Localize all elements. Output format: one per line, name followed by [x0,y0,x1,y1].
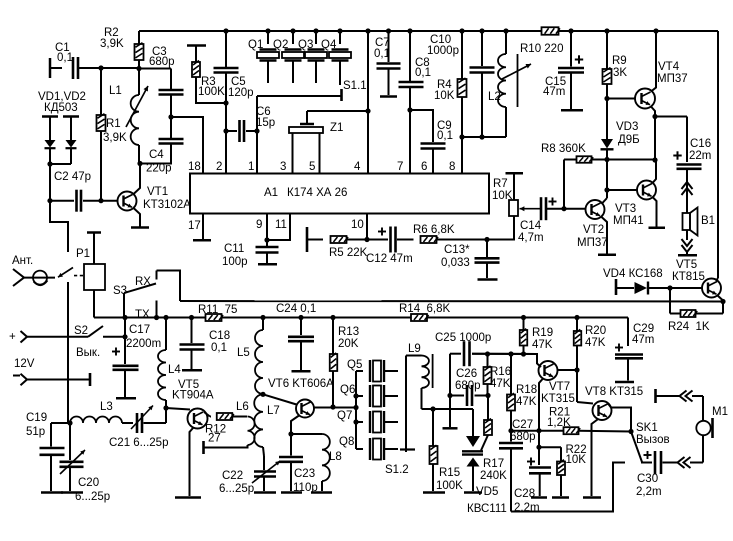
connector chevrons mic bottom [678,457,685,468]
wire varicap rail [422,408,474,410]
transistor VT6 [263,394,297,404]
svg-text:R11 75: R11 75 [198,304,237,316]
svg-text:47m: 47m [543,86,565,98]
svg-text:10K: 10K [434,90,455,102]
transistor VT7 [537,364,541,368]
resistor R9 [604,28,609,33]
node R9-VT4 base [604,96,609,101]
svg-text:3,9K: 3,9K [103,132,127,144]
capacitor C21 variable [137,413,142,433]
svg-text:22m: 22m [689,150,711,162]
svg-text:Q4: Q4 [321,39,337,51]
resistor R16 [487,354,489,367]
svg-text:К174 ХА 26: К174 ХА 26 [287,187,347,199]
node VD4-R24 [667,285,672,290]
wire audio rail [472,354,537,364]
svg-text:C17: C17 [129,324,150,336]
resistor R22 [557,460,565,475]
capacitor C6 [226,130,237,132]
svg-text:4: 4 [354,161,361,173]
svg-text:R20: R20 [585,325,606,337]
capacitor C20 variable [69,423,71,460]
node R4-C10-L2-pin8 [459,134,464,139]
svg-text:1: 1 [248,161,254,173]
transistor VT1 [101,200,118,202]
transistor VT3 [607,189,637,191]
svg-text:6...25p: 6...25p [75,491,110,503]
svg-text:3: 3 [280,161,286,173]
capacitor C24 [300,318,302,336]
svg-text:2,2m: 2,2m [636,486,662,498]
wire VT2 collector [606,190,608,198]
svg-text:C26: C26 [456,368,477,380]
node VD junction [47,161,52,166]
transistor VT5 KT904A [166,408,190,410]
node TX-L4 [163,315,168,320]
relay S3 box [87,231,101,234]
svg-text:680p: 680p [455,380,481,392]
svg-text:47m: 47m [632,334,654,346]
svg-text:S1.1: S1.1 [343,80,367,92]
contact TX [156,301,158,318]
crystal Q8 [356,448,363,450]
svg-text:11: 11 [275,219,287,231]
wire VT4e to C16 [655,116,687,118]
svg-text:10: 10 [351,219,364,231]
svg-text:18: 18 [188,161,201,173]
resistor R6 [421,236,439,243]
node RX right end [720,299,725,304]
svg-text:0,1: 0,1 [374,48,390,60]
inductor L2 [503,28,508,33]
svg-text:47K: 47K [516,396,537,408]
svg-text:VT1: VT1 [147,186,168,198]
node Q-rail Q6 [353,393,358,398]
node L4-C21-VT5 base [163,405,168,410]
node Q-rail Q7 [353,419,358,424]
svg-text:C13*: C13* [444,244,470,256]
svg-text:6: 6 [421,161,427,173]
svg-text:C19: C19 [26,412,47,424]
node TX-C24 [298,315,303,320]
inductor L4 [165,318,167,351]
capacitor C22 variable [254,472,276,477]
capacitor C9 [410,110,433,142]
wire pin4 [367,31,369,174]
node C5-C6 [223,128,228,133]
capacitor C30 [641,462,652,464]
svg-text:VT3: VT3 [615,203,636,215]
node TX-C18 [189,315,194,320]
capacitor C11 [266,240,268,246]
pin 10 wire [366,214,368,240]
svg-text:C28: C28 [514,488,535,500]
node TX-R19 [521,315,526,320]
node pin10-R5-C12 [364,237,369,242]
svg-text:МП37: МП37 [657,73,688,85]
capacitor C23 [290,434,292,456]
svg-text:VD5: VD5 [476,486,498,498]
resistor R11 [206,314,224,321]
svg-text:680p: 680p [149,56,175,68]
svg-text:R8 360K: R8 360K [541,143,586,155]
svg-text:47K: 47K [532,339,553,351]
svg-text:Z1: Z1 [330,122,343,134]
svg-text:R13: R13 [338,326,359,338]
relay contact P1 arm [58,268,73,278]
crystal Q4 [337,28,342,33]
svg-text:VT6 KT606A: VT6 KT606A [268,378,334,390]
svg-text:Вык.: Вык. [76,347,100,359]
crystal Q1 [265,28,270,33]
diode VD3 [606,99,608,140]
capacitor C1 [49,58,52,78]
svg-text:C11: C11 [224,243,244,255]
svg-text:120p: 120p [228,87,254,99]
node R1-VT1 base [98,198,103,203]
trimmer arrow L2 [502,64,531,79]
svg-text:Q7: Q7 [337,410,352,422]
diode VD4 [615,279,618,295]
svg-text:C30: C30 [637,473,658,485]
wire Z1 to pin4 [307,110,368,112]
capacitor C14 [541,197,546,220]
svg-text:17: 17 [188,220,201,232]
svg-text:C24 0,1: C24 0,1 [276,303,316,315]
node R8-VT3C [652,157,657,162]
svg-text:VT8 KT315: VT8 KT315 [585,386,643,398]
svg-text:S1.2: S1.2 [385,464,409,476]
svg-text:VT4: VT4 [658,61,680,73]
svg-text:0,1: 0,1 [415,67,431,79]
wire TX bus [94,317,628,319]
inductor L8 [291,433,322,435]
node bus C5 [223,28,228,33]
terminal bar C26 gnd [443,427,458,430]
resistor R10 [542,27,560,35]
wire TX bus to C29 [627,318,629,347]
wire VD to C2 node [49,164,51,201]
svg-text:L6: L6 [236,401,249,413]
svg-text:M1: M1 [712,406,728,418]
svg-text:680p: 680p [510,431,536,443]
wire common left vertical lower [67,282,69,423]
transistor VT5 KT815 [670,287,702,289]
svg-text:3,9K: 3,9K [100,38,124,50]
wire VT2 base [547,208,586,210]
svg-text:C14: C14 [520,220,542,232]
resistor R12 [210,416,211,418]
node R6-C13-R7 [484,237,489,242]
svg-text:51p: 51p [26,426,45,438]
node pin4-Z1 [365,108,370,113]
svg-text:Q8: Q8 [339,436,354,448]
node C4-L1-VT1 [137,161,142,166]
svg-text:2200m: 2200m [126,338,161,350]
wire L2 tank bottom [462,136,506,138]
svg-text:9: 9 [256,219,262,231]
svg-text:R10 220: R10 220 [520,43,563,55]
capacitor C12 [367,239,388,241]
svg-text:R6 6,8K: R6 6,8K [413,224,455,236]
svg-text:C22: C22 [222,470,243,482]
resistor R13 [332,318,334,355]
connector chevrons up [682,182,693,189]
svg-text:R15: R15 [439,467,460,479]
svg-text:L5: L5 [237,347,250,359]
resistor R8 [564,159,577,161]
connector chevrons mic top [680,391,687,402]
svg-text:C16: C16 [690,138,711,150]
crystal Q5 [356,370,363,372]
resistor R21 [564,427,581,434]
wire C3 node to pin18 [171,117,203,174]
svg-text:47K: 47K [490,378,511,390]
capacitor C27 [510,431,512,442]
svg-text:VD3: VD3 [616,121,638,133]
svg-text:1000p: 1000p [427,45,459,57]
node VT2 base [561,206,566,211]
wire RX supply line [180,300,723,303]
capacitor C26 [450,395,464,397]
inductor L5 [262,318,264,331]
node Q-rail in [353,405,358,410]
svg-text:R24 1K: R24 1K [668,321,710,333]
svg-text:Д9Б: Д9Б [618,134,640,146]
wire C28-R22 link [539,446,561,448]
transistor VT8 [576,370,578,402]
potentiometer R7 [506,172,524,175]
resistor R24 [669,288,671,314]
transistor VT4 [607,98,636,100]
capacitor C13 [486,240,488,258]
capacitor C25 [450,353,461,355]
svg-text:TX: TX [135,309,150,321]
svg-text:Q5: Q5 [347,359,362,371]
svg-text:0,1: 0,1 [437,130,453,142]
svg-text:10K: 10K [492,190,513,202]
svg-text:C12 47m: C12 47m [366,253,413,265]
node L5-L7-VT6 [260,392,265,397]
resistor R1 [100,69,102,116]
svg-text:15p: 15p [256,117,275,129]
crystal Q7 [356,421,363,423]
svg-text:2,2m: 2,2m [514,502,540,514]
svg-text:5: 5 [309,161,315,173]
svg-text:R18: R18 [516,384,537,396]
svg-text:R5 22K: R5 22K [329,247,368,259]
svg-text:100p: 100p [222,256,248,268]
node rail R18 [508,351,513,356]
svg-text:МП37: МП37 [577,237,608,249]
diode VD2 [63,115,79,118]
svg-text:R17: R17 [483,458,504,470]
contact RX [156,271,158,280]
trimmer arrow L1 [126,86,148,127]
switch S1.2 [405,356,407,453]
svg-text:L4: L4 [168,364,181,376]
node TX-R13 [330,315,335,320]
capacitor C19 [51,422,70,424]
crystal Z1 [289,127,323,133]
node VT6 emitter [288,431,293,436]
svg-text:RX: RX [135,276,151,288]
svg-text:C20: C20 [78,477,99,489]
svg-text:S2: S2 [74,325,88,337]
resistor R5 [306,227,309,252]
crystal Q6 [356,395,363,397]
svg-text:220p: 220p [146,163,172,175]
capacitor C8 [407,28,412,33]
capacitor C16 [673,151,681,159]
svg-text:0,1: 0,1 [211,342,227,354]
node left common - L3 [67,420,72,425]
svg-text:SK1: SK1 [636,422,658,434]
inductor L3 [70,417,122,423]
svg-text:КТ815: КТ815 [672,271,705,283]
resistor R14 [411,314,429,321]
node pin9-11 [264,237,269,242]
switch S3.1 pole [122,315,127,320]
wire R21 line [511,430,564,432]
wire R8 left drop [563,160,565,209]
pin 9 wire [266,214,268,241]
battery minus terminal [13,375,20,377]
diode VD1 [42,115,58,118]
node VT7e-R21 [536,428,541,433]
node rail R16 [485,351,490,356]
node C1-R2 [136,66,141,71]
IC A1 box [190,174,489,214]
svg-text:C25 1000p: C25 1000p [435,332,491,344]
svg-text:Q3: Q3 [298,39,313,51]
node C3-C4 [168,114,173,119]
capacitor C5 [225,31,227,67]
resistor R2 [138,31,140,44]
svg-text:12V: 12V [14,358,35,370]
polarity C17 plus [112,348,120,356]
node C1-R1 [98,65,103,70]
capacitor C28 [538,447,540,465]
svg-text:3K: 3K [613,67,627,79]
svg-text:C4: C4 [149,149,164,161]
varicap VD5 [472,409,474,436]
svg-text:МП41: МП41 [613,215,644,227]
node R18-C27-R21 [508,428,513,433]
svg-text:240K: 240K [480,470,507,482]
svg-text:47K: 47K [585,337,606,349]
svg-text:VT5: VT5 [676,259,697,271]
svg-text:C18: C18 [209,330,230,342]
svg-text:1,2K: 1,2K [547,417,571,429]
resistor R15 [432,409,434,446]
inductor L6 [248,417,255,446]
svg-text:27: 27 [208,433,221,445]
node C26 left [447,393,452,398]
capacitor C2 [50,200,74,202]
svg-text:10K: 10K [566,454,587,466]
svg-text:R7: R7 [493,178,508,190]
wire bottom return [511,463,625,512]
svg-text:Q2: Q2 [273,39,288,51]
inductor L1 [138,69,140,96]
node R3-C5 [223,100,228,105]
wire VT4e down [654,117,656,161]
svg-text:8: 8 [449,161,455,173]
node VT4 emitter [652,114,657,119]
svg-text:6...25p: 6...25p [219,483,254,495]
svg-text:100K: 100K [198,86,225,98]
node TX-R20 [574,315,579,320]
svg-text:7: 7 [397,161,403,173]
svg-text:C2 47p: C2 47p [54,171,91,183]
wire Q-rail [333,407,356,409]
svg-text:P1: P1 [76,248,90,260]
capacitor C10 [479,28,484,33]
wire VD bottoms [50,163,71,165]
svg-text:KT315: KT315 [541,393,575,405]
svg-text:4,7m: 4,7m [518,232,544,244]
pin 17 stub [202,214,204,240]
node VT7e-C28 [536,445,541,450]
svg-text:Ант.: Ант. [12,255,33,267]
svg-text:B1: B1 [701,215,715,227]
terminal bar B1 bottom [678,254,697,257]
svg-text:C21 6...25p: C21 6...25p [109,437,168,449]
node VD3-VT3 base [604,187,609,192]
capacitor C17 [124,318,126,337]
svg-text:0,1: 0,1 [57,52,73,64]
svg-text:A1: A1 [264,187,278,199]
svg-text:R14 6,8K: R14 6,8K [399,303,450,315]
svg-text:C27: C27 [512,419,533,431]
svg-text:VT7: VT7 [549,381,570,393]
resistor R4 [459,28,464,33]
node SK1 [628,429,633,434]
mech link P1 dashes [74,275,84,277]
svg-text:VD4 КС168: VD4 КС168 [603,268,663,280]
svg-text:KT904A: KT904A [172,390,214,402]
svg-text:L7: L7 [267,405,280,417]
node R8-VD3 [604,157,609,162]
capacitor C18 [191,318,193,344]
node R13-VT6 collector [330,404,335,409]
wiper arrow R7 [520,208,541,210]
capacitor C29 [615,344,623,352]
svg-text:KT3102A: KT3102A [143,199,191,211]
resistor R17 [487,396,489,421]
switch S2 [88,326,103,337]
svg-text:L8: L8 [329,451,342,463]
capacitor C4 [170,117,172,138]
polarity C12 plus [378,228,386,236]
svg-text:КД503: КД503 [44,102,78,114]
wire top supply bus [139,30,542,32]
svg-text:R16: R16 [490,366,511,378]
svg-text:VT2: VT2 [583,224,604,236]
svg-text:R19: R19 [532,327,553,339]
capacitor C15 [568,28,573,33]
svg-text:Q6: Q6 [340,384,355,396]
wire common left vertical upper [50,201,68,252]
capacitor C3 [139,68,171,70]
node TX-L5 [260,315,265,320]
wire C26 left drop [449,354,451,427]
switch S1.1 [340,89,343,101]
svg-text:L9: L9 [408,343,421,355]
svg-text:20K: 20K [338,338,359,350]
crystal Q3 [313,28,318,33]
